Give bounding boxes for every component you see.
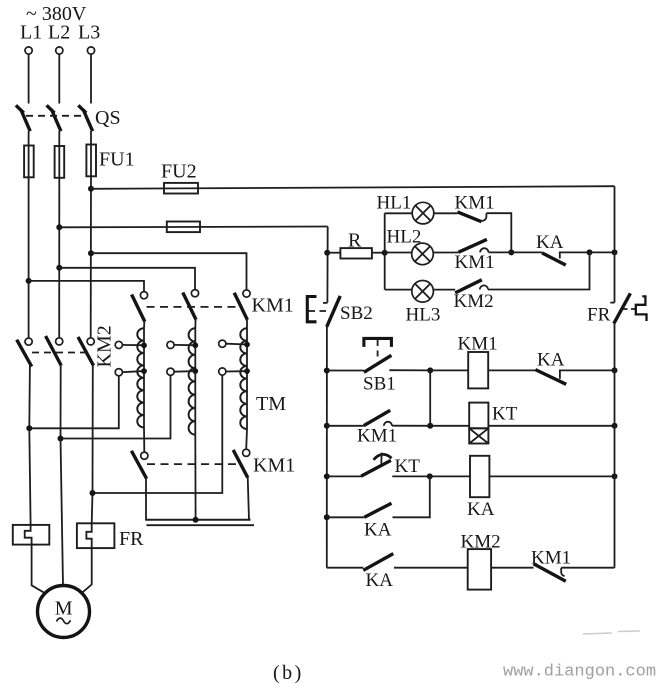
lamp bus vertical bbox=[384, 213, 386, 289]
svg-text:QS: QS bbox=[95, 107, 121, 129]
wire w1 tap to motor line1 bbox=[29, 376, 119, 429]
TM winding 2 core line bbox=[194, 328, 196, 434]
switch QS pole 2 bbox=[47, 105, 61, 131]
svg-text:HL2: HL2 bbox=[387, 227, 422, 248]
svg-text:L2: L2 bbox=[48, 22, 70, 44]
TM w2 tap terminal lower bbox=[167, 368, 198, 375]
contact KT delayed NO branch3 bbox=[327, 453, 430, 477]
wire phase3 FU1 to KM2 bbox=[90, 176, 92, 337]
svg-text:R: R bbox=[348, 230, 362, 252]
pushbutton SB2 contact bbox=[323, 296, 340, 327]
svg-text:FU2: FU2 bbox=[161, 161, 197, 183]
wire QS to FU1 pole2 bbox=[58, 131, 60, 146]
svg-text:KM1: KM1 bbox=[252, 295, 294, 317]
svg-text:KM1: KM1 bbox=[455, 193, 495, 214]
junction left rail branch3 bbox=[324, 473, 330, 479]
SB1 linkage dashed bbox=[377, 340, 379, 361]
FR linkage dashed bbox=[623, 308, 637, 310]
contactor KM1 main pole 1 bbox=[132, 292, 148, 329]
KM1 main linkage dashed bbox=[147, 306, 239, 308]
svg-text:L1: L1 bbox=[20, 22, 42, 44]
contact KM1 lamp row 2 bbox=[433, 239, 511, 252]
vertical link branch1 to branch2 bbox=[429, 370, 431, 425]
junction left rail branch1 bbox=[324, 368, 330, 374]
contact KA NO branch3b bbox=[327, 476, 430, 517]
contactor KM1 star pole 1 bbox=[131, 427, 148, 519]
fuse FU2 lower bbox=[167, 222, 200, 233]
wire QS to FU1 pole1 bbox=[28, 131, 30, 146]
junction HL1 return bbox=[508, 249, 514, 255]
TM w3 tap terminal lower bbox=[219, 368, 250, 375]
wire w3 tap to motor line3 bbox=[93, 375, 223, 493]
junction phase2 FU2b bbox=[56, 224, 62, 230]
svg-text:FR: FR bbox=[119, 528, 144, 550]
wire branch1 to KM1 coil bbox=[430, 369, 468, 371]
svg-text:KA: KA bbox=[536, 232, 564, 253]
junction star point bbox=[193, 517, 199, 523]
fuse FU1 pole 2 bbox=[55, 146, 65, 178]
autotransformer TM winding 3 bbox=[240, 328, 247, 429]
motor M bbox=[38, 586, 90, 638]
svg-text:www.diangon.com: www.diangon.com bbox=[503, 663, 656, 682]
junction phase3 feed bbox=[88, 250, 94, 256]
svg-text:HL3: HL3 bbox=[406, 305, 441, 326]
contactor KM1 main pole 3 bbox=[234, 290, 250, 329]
control left rail lower bbox=[326, 326, 328, 568]
switch QS pole 3 bbox=[78, 105, 92, 131]
contactor KM1 star pole 2 wire bbox=[194, 435, 196, 520]
KM2 main linkage dashed bbox=[32, 352, 88, 354]
junction phase1 feed bbox=[26, 278, 32, 284]
junction lamp bus bbox=[382, 250, 388, 256]
wire FR1 to motor bbox=[32, 545, 46, 594]
fuse FU1 pole 1 bbox=[24, 146, 34, 178]
junction left rail branch3b bbox=[324, 514, 330, 520]
terminal L1 bbox=[25, 47, 32, 54]
svg-text:KA: KA bbox=[537, 350, 565, 371]
wire L2 to QS bbox=[58, 54, 60, 103]
TM winding 1 core line bbox=[143, 328, 145, 427]
contactor KM2 main pole 1 bbox=[17, 338, 33, 367]
autotransformer TM winding 1 bbox=[137, 328, 144, 427]
control left rail upper bbox=[326, 227, 328, 303]
wire FU2b line bbox=[59, 226, 327, 229]
contact KA NC branch1 bbox=[535, 370, 614, 385]
svg-text:(b): (b) bbox=[273, 662, 304, 684]
terminal L3 bbox=[87, 47, 94, 54]
right rail lower bbox=[614, 323, 616, 568]
wire branch3 to KA coil bbox=[430, 475, 470, 477]
svg-text:FU1: FU1 bbox=[99, 149, 135, 171]
svg-text:KA: KA bbox=[467, 499, 495, 520]
junction branch2 link bbox=[427, 423, 433, 429]
wire KM2 pole1 to motor line bbox=[29, 366, 30, 525]
svg-text:SB2: SB2 bbox=[340, 303, 373, 324]
contactor KM1 main pole 2 bbox=[183, 290, 199, 329]
SB2 linkage dashed bbox=[309, 310, 328, 312]
wire KM2 coil to KM1 NC bbox=[491, 567, 533, 569]
junction right rail branch3 bbox=[612, 473, 618, 479]
wire KT coil to right rail bbox=[488, 425, 614, 427]
junction phase3 FU2a bbox=[88, 186, 94, 192]
FR thermal element bbox=[636, 296, 647, 321]
KM1 star linkage dashed bbox=[147, 463, 238, 465]
resistor R bbox=[327, 248, 385, 258]
wire KM2 pole2 to motor line bbox=[61, 365, 64, 585]
right rail upper bbox=[614, 186, 616, 302]
junction right rail branch2 bbox=[612, 423, 618, 429]
lamp HL2 bbox=[385, 243, 434, 265]
junction HL3 return bbox=[587, 249, 593, 255]
contactor KM2 main pole 2 bbox=[46, 336, 63, 366]
contactor KM1 star pole 3 bbox=[233, 429, 250, 520]
svg-text:SB1: SB1 bbox=[363, 374, 396, 395]
watermark smudge bbox=[583, 631, 640, 634]
wire KA to right rail bbox=[590, 251, 615, 253]
junction right rail branch1 bbox=[612, 367, 618, 373]
svg-text:L3: L3 bbox=[78, 22, 100, 44]
wire L1 to QS bbox=[28, 54, 30, 103]
TM w1 tap terminal upper bbox=[115, 341, 147, 348]
svg-text:KM2: KM2 bbox=[454, 291, 494, 312]
svg-text:KT: KT bbox=[492, 404, 518, 425]
svg-text:FR: FR bbox=[587, 305, 611, 326]
svg-text:KM1: KM1 bbox=[253, 455, 295, 477]
thermal relay FR heater 1 bbox=[13, 525, 50, 545]
junction right rail lamp row bbox=[612, 249, 618, 255]
wire FU2a line bbox=[91, 186, 615, 189]
contact FR NC bbox=[614, 293, 631, 323]
lamp HL1 bbox=[385, 202, 434, 224]
wire QS to FU1 pole3 bbox=[90, 131, 92, 145]
svg-text:HL1: HL1 bbox=[377, 193, 412, 214]
svg-text:KM1: KM1 bbox=[458, 334, 498, 355]
svg-text:TM: TM bbox=[256, 393, 286, 415]
junction R on left rail bbox=[324, 250, 330, 256]
switch QS pole 1 bbox=[16, 105, 30, 131]
contactor KM2 main pole 3 bbox=[78, 337, 94, 366]
svg-text:KM1: KM1 bbox=[357, 426, 397, 447]
contact KM1 NC branch4 bbox=[534, 564, 615, 581]
thermal relay FR heater 2 bbox=[77, 523, 115, 548]
svg-text:KM2: KM2 bbox=[461, 532, 501, 553]
star point bar bbox=[145, 519, 250, 521]
TM winding 3 core line bbox=[246, 328, 248, 429]
TM w3 tap terminal upper bbox=[219, 340, 250, 347]
coil KM1 bbox=[468, 352, 488, 388]
pushbutton SB1 contact bbox=[327, 355, 430, 372]
TM w1 tap terminal lower bbox=[115, 368, 147, 376]
wire branch2 to KT coil bbox=[430, 425, 469, 427]
svg-text:KM2: KM2 bbox=[94, 325, 116, 367]
TM w2 tap terminal upper bbox=[167, 341, 198, 348]
contact KA lamp row bbox=[511, 252, 589, 265]
contact KA NO branch4 bbox=[327, 554, 468, 571]
autotransformer TM winding 2 bbox=[189, 328, 196, 434]
wire KM2 pole3 to motor line bbox=[92, 365, 93, 524]
wire feed phase2 to KM1 pole2 bbox=[59, 268, 195, 290]
terminal L2 bbox=[56, 47, 63, 54]
svg-text:KT: KT bbox=[395, 456, 421, 477]
fuse FU2 upper bbox=[164, 183, 198, 194]
pushbutton SB2 bracket bbox=[307, 297, 316, 322]
coil KM2 bbox=[468, 549, 491, 590]
wire KM1 coil to KA NC bbox=[488, 369, 535, 371]
wire feed phase1 to KM1 pole1 bbox=[29, 281, 144, 292]
junction tap2 on motor line2 bbox=[58, 436, 64, 442]
wire phase2 FU1 to KM2 bbox=[58, 178, 60, 337]
svg-text:KA: KA bbox=[364, 520, 392, 541]
QS linkage dashed bbox=[26, 115, 87, 117]
wire phase1 FU1 to KM2 bbox=[28, 177, 30, 338]
wire KA coil to right rail bbox=[489, 475, 614, 477]
svg-text:KA: KA bbox=[366, 570, 394, 591]
wire L3 to QS bbox=[90, 54, 92, 103]
coil KA bbox=[470, 456, 489, 497]
star bar underline bbox=[147, 524, 255, 526]
fuse FU1 pole 3 bbox=[86, 145, 96, 177]
svg-text:KM1: KM1 bbox=[455, 252, 495, 273]
junction branch1 link bbox=[427, 367, 433, 373]
junction left rail branch2 bbox=[324, 423, 330, 429]
junction tap3 on motor line3 bbox=[90, 490, 96, 496]
contact KM1 aux NO branch2 bbox=[327, 410, 430, 426]
FR NC top tick bbox=[610, 302, 614, 304]
wire feed phase3 to KM1 pole3 bbox=[91, 253, 247, 290]
junction branch3 link bbox=[427, 473, 433, 479]
junction phase2 feed bbox=[56, 265, 62, 271]
contact KM1 lamp row 1 bbox=[434, 212, 512, 250]
wire w2 tap to motor line2 bbox=[61, 375, 171, 438]
pushbutton SB1 button bar bbox=[364, 338, 392, 347]
svg-text:M: M bbox=[55, 598, 73, 620]
junction tap1 on motor line1 bbox=[26, 425, 32, 431]
wire FR2 to motor bbox=[82, 548, 92, 593]
coil KT bbox=[469, 403, 488, 444]
contact KM2 lamp row 3 bbox=[433, 252, 590, 293]
lamp HL3 bbox=[385, 281, 434, 303]
svg-text:KM1: KM1 bbox=[531, 548, 571, 569]
